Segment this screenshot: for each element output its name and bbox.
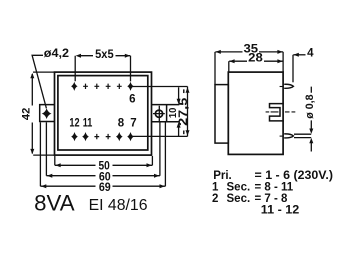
dim 5x5 (pin pitch) [75, 56, 130, 82]
dim 60 [46, 122, 159, 176]
dim 27,5 (pin row spacing) [187, 87, 189, 137]
pin 8 (bottom row, star) [116, 132, 123, 141]
svg-text:= 7 - 8: = 7 - 8 [255, 193, 289, 205]
transformer body outer case (top view) [55, 72, 152, 155]
pin 6 (top row, star) [127, 82, 134, 91]
dim 50 (hole spacing) [55, 156, 153, 166]
right mounting hole [155, 110, 162, 117]
svg-text:7: 7 [130, 117, 136, 129]
svg-text:EI 48/16: EI 48/16 [89, 197, 148, 214]
fixing clip (side view) [270, 104, 284, 121]
right mounting flange [152, 105, 180, 122]
transformer body inner wall [58, 76, 148, 150]
svg-text:Pri.: Pri. [213, 170, 232, 182]
svg-text:= 8 - 11: = 8 - 11 [255, 182, 294, 194]
svg-text:= 1 - 6 (230V.): = 1 - 6 (230V.) [255, 170, 334, 182]
dim 69 (overall width) [40, 122, 165, 186]
svg-text:11 - 12: 11 - 12 [261, 205, 300, 217]
dim 4 (pin length) [292, 55, 294, 83]
pin positions bottom row (crosses) [94, 134, 99, 139]
dim 10 (flange height) [178, 87, 180, 136]
pin positions top row (crosses) [83, 84, 88, 89]
left mounting hole (4.2mm) [42, 108, 52, 119]
svg-text:8: 8 [118, 117, 125, 129]
side view body [228, 72, 283, 154]
pin 12 (bottom row, star) [71, 132, 78, 141]
svg-text:69: 69 [99, 182, 111, 194]
bottom pin edge extension lines [294, 134, 311, 137]
svg-text:5x5: 5x5 [95, 49, 114, 61]
pin 11 (bottom row, star) [82, 132, 89, 141]
bottom pin (side view) [284, 134, 293, 138]
svg-text:ø4,2: ø4,2 [44, 48, 69, 60]
svg-text:42: 42 [20, 108, 32, 120]
svg-text:Sec.: Sec. [227, 193, 251, 205]
clip center line (dashed) [266, 111, 296, 113]
top pin (side view) [284, 84, 293, 88]
svg-text:28: 28 [248, 53, 263, 65]
dim 28 (body depth) [228, 61, 230, 72]
line from pin 7 to 27.5 dim [131, 135, 188, 137]
svg-text:4: 4 [307, 48, 314, 60]
line from pin 6 to 27.5 dim [131, 86, 188, 88]
dim 35 (overall depth) [215, 52, 283, 85]
svg-text:12: 12 [69, 117, 79, 129]
left mounting flange [40, 105, 55, 122]
dim diameter 0,8 (pin) [310, 87, 312, 152]
svg-text:8VA: 8VA [34, 191, 75, 216]
svg-text:ø 0,8: ø 0,8 [304, 94, 316, 118]
side view mounting flange plate [215, 85, 228, 144]
svg-text:2: 2 [212, 193, 218, 205]
svg-text:1: 1 [212, 182, 219, 194]
svg-text:Sec.: Sec. [227, 182, 251, 194]
svg-text:6: 6 [129, 93, 135, 105]
svg-text:11: 11 [83, 117, 93, 129]
dim 42 (height) [33, 71, 55, 73]
pin 7 (bottom row, star) [127, 132, 134, 141]
svg-text:- 27,5 -: - 27,5 - [178, 89, 190, 135]
pin 1 (top row, star) [71, 82, 78, 91]
